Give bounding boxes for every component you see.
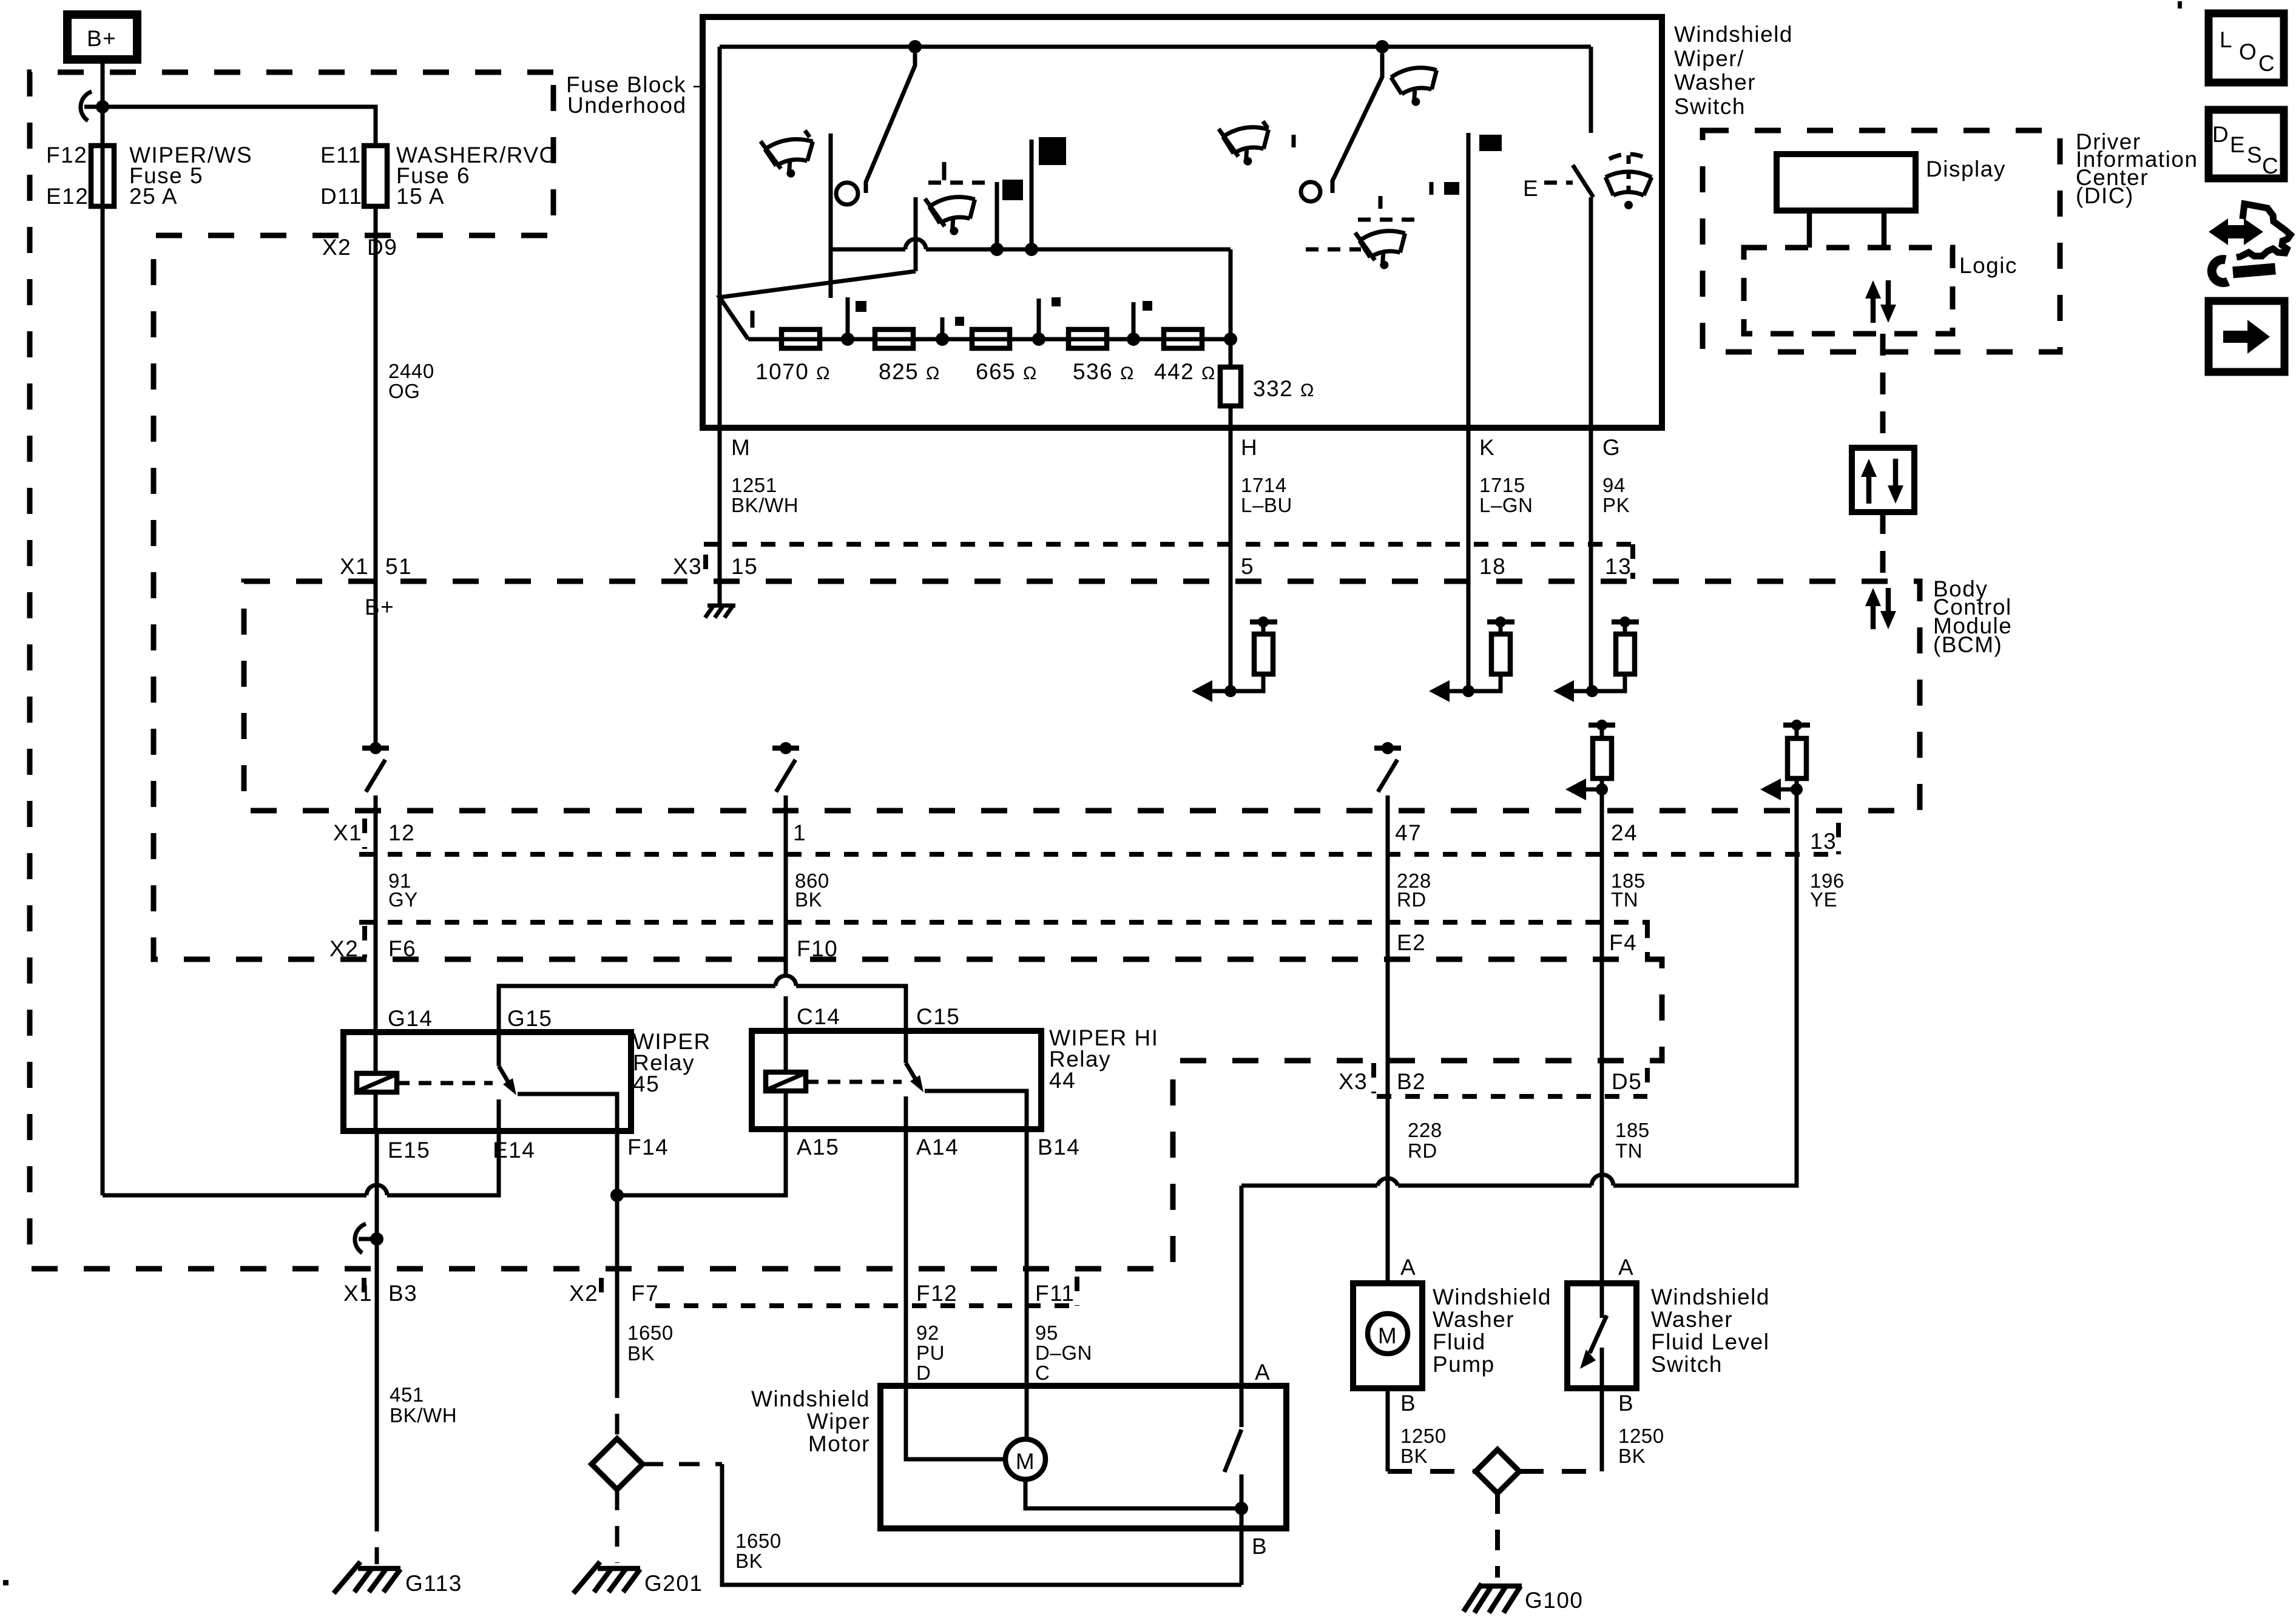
wire B down from motor (1240, 1508, 1244, 1585)
INT dashes lower (1306, 248, 1361, 252)
OFF contact vertical (829, 133, 833, 298)
svg-text:E12: E12 (46, 184, 89, 209)
svg-text:O: O (2239, 39, 2257, 64)
contact circle right selector (1301, 182, 1320, 201)
svg-text:A: A (1618, 1255, 1634, 1280)
display legs (1807, 211, 1812, 248)
svg-text:C: C (2258, 51, 2275, 76)
svg-text:X3: X3 (673, 554, 702, 579)
BCM input pull resistor H (1192, 616, 1277, 702)
svg-text:F7: F7 (631, 1281, 659, 1306)
left feed wire to E14 with hop over E15 (103, 1193, 366, 1198)
BCM pull-up 196 YE (1760, 720, 1810, 800)
svg-text:15 A: 15 A (396, 184, 445, 209)
Driver Information Center dashed box (1703, 130, 2060, 352)
svg-text:Windshield: Windshield (1674, 22, 1793, 47)
connector view icon: wrench (2233, 269, 2275, 272)
M column wire inside switch (718, 47, 722, 428)
connector view icon: component outline (2237, 204, 2291, 257)
svg-text:E: E (1523, 176, 1539, 201)
contact circle left selector (836, 183, 858, 204)
svg-text:665 Ω: 665 Ω (976, 359, 1038, 384)
wiper icon (low, slashed) (760, 130, 818, 181)
svg-text:A: A (1400, 1255, 1416, 1280)
svg-text:1715: 1715 (1479, 474, 1525, 496)
mist vertical link (914, 197, 918, 271)
mist tick (942, 162, 947, 180)
LOC icon box (2209, 13, 2284, 83)
ladder right node (1224, 333, 1237, 346)
ground G201 (573, 1562, 640, 1593)
wire 1650 BK from F7 (615, 1269, 620, 1377)
svg-text:C: C (1035, 1362, 1050, 1384)
relay45 coil (374, 959, 378, 1073)
svg-text:Logic: Logic (1959, 253, 2017, 278)
wire 196 YE down and across (1613, 789, 1797, 1186)
up/down arrows in Logic (1865, 280, 1896, 323)
connector view icon: double arrow (2209, 218, 2263, 245)
svg-text:18: 18 (1479, 554, 1506, 579)
BCM output driver switch (860 BK) (772, 746, 799, 751)
svg-text:H: H (1241, 435, 1258, 460)
ladder node 3 (1032, 333, 1045, 346)
svg-text:536 Ω: 536 Ω (1073, 359, 1135, 384)
svg-text:X2: X2 (322, 235, 351, 260)
svg-text:1250: 1250 (1618, 1425, 1664, 1447)
svg-text:K: K (1479, 435, 1495, 460)
svg-text:Pump: Pump (1433, 1352, 1495, 1377)
K detent square top (1479, 135, 1502, 151)
svg-text:1: 1 (793, 820, 806, 845)
svg-text:M: M (1378, 1323, 1397, 1348)
svg-text:Display: Display (1926, 157, 2006, 181)
connector dotted line row1 (359, 852, 1838, 857)
F14 wire down with junction to A15 (615, 1131, 620, 1377)
svg-text:825 Ω: 825 Ω (879, 359, 940, 384)
LO position stub (995, 182, 999, 249)
connector dotted line F12 F11 (655, 1303, 1077, 1308)
ground G100 (1464, 1584, 1522, 1613)
svg-text:X1: X1 (333, 820, 362, 845)
wire ladder to linkage (1229, 249, 1233, 339)
svg-text:F12: F12 (916, 1281, 957, 1306)
svg-text:X2: X2 (569, 1281, 598, 1306)
svg-text:OG: OG (388, 380, 420, 402)
selector lever 1 (866, 53, 915, 193)
LO detent square (1002, 180, 1023, 200)
svg-text:BK/WH: BK/WH (731, 494, 799, 516)
svg-text:F10: F10 (797, 936, 838, 961)
svg-text:Fluid Level: Fluid Level (1651, 1329, 1769, 1354)
X3 tick (703, 555, 708, 579)
svg-text:M: M (1016, 1449, 1035, 1474)
HI detent square (1039, 137, 1066, 165)
fuse WASHER/RVC Fuse 6 (364, 146, 387, 206)
splice diamond S (592, 1439, 643, 1490)
svg-text:E2: E2 (1397, 930, 1426, 955)
svg-text:PU: PU (916, 1342, 945, 1364)
svg-text:(BCM): (BCM) (1933, 632, 2002, 657)
svg-text:BK: BK (1618, 1445, 1646, 1467)
svg-text:E15: E15 (388, 1138, 430, 1163)
svg-text:A15: A15 (797, 1135, 839, 1160)
svg-text:B14: B14 (1038, 1135, 1080, 1160)
wire 451 BK/WH (375, 1269, 379, 1511)
svg-text:TN: TN (1611, 888, 1638, 911)
WIPER HI Relay 44 box (752, 1031, 1041, 1129)
level B wire (1600, 1388, 1604, 1471)
wire A14 92 PU (904, 1129, 908, 1386)
G wire lower (1589, 197, 1593, 428)
up/down arrows inside BCM (1865, 588, 1896, 629)
svg-text:B: B (1400, 1391, 1416, 1416)
X3 connector dotted line (704, 542, 1633, 547)
svg-text:M: M (731, 435, 751, 460)
svg-text:442 Ω: 442 Ω (1154, 359, 1216, 384)
resistor 332 ohm (1229, 339, 1233, 367)
forward arrow icon box (2209, 301, 2284, 372)
mist dashes (928, 181, 989, 185)
wire 185 TN down (1600, 789, 1604, 1283)
relay44 coil-switch dashed link (806, 1080, 902, 1084)
ladder node 2 (936, 333, 949, 346)
resistor 825 ohm (875, 329, 913, 348)
svg-text:G14: G14 (388, 1006, 433, 1031)
svg-text:1650: 1650 (627, 1322, 674, 1344)
hop arc over C14 wire (775, 976, 796, 986)
right selector lever (1332, 53, 1382, 193)
svg-text:1251: 1251 (731, 474, 777, 496)
svg-text:13: 13 (1605, 554, 1632, 579)
clip symbol on E15 wire (355, 1224, 366, 1253)
relay44 switch (906, 1063, 919, 1085)
svg-text:Windshield: Windshield (1651, 1284, 1770, 1309)
wire junction to washer fuse (103, 107, 376, 146)
svg-text:332 Ω: 332 Ω (1253, 376, 1315, 401)
svg-text:1250: 1250 (1400, 1425, 1447, 1447)
washer icon (dashed arc) (1606, 154, 1652, 209)
junction node linkage hi (1025, 243, 1038, 256)
svg-text:F12: F12 (46, 143, 87, 167)
svg-text:L–GN: L–GN (1479, 494, 1533, 516)
svg-text:PK: PK (1602, 494, 1630, 516)
svg-text:1650: 1650 (735, 1530, 782, 1552)
svg-text:25 A: 25 A (129, 184, 178, 209)
page corner dot bottom-left (3, 1580, 8, 1585)
svg-text:D9: D9 (367, 235, 397, 260)
resistor 665 ohm (972, 329, 1010, 348)
svg-text:D: D (2212, 122, 2229, 147)
svg-text:D: D (916, 1362, 931, 1384)
svg-text:B+: B+ (87, 26, 116, 51)
svg-text:TN: TN (1615, 1139, 1643, 1162)
svg-text:451: 451 (390, 1383, 424, 1406)
svg-text:228: 228 (1408, 1119, 1442, 1141)
svg-text:B3: B3 (388, 1281, 417, 1306)
wire B14 95 D-GN (1025, 1129, 1029, 1386)
park switch lever (1224, 1430, 1241, 1472)
svg-text:X2: X2 (329, 936, 359, 961)
HI position stub (1030, 140, 1034, 249)
wire A from BCM line down into motor (1240, 1186, 1244, 1427)
fuse WIPER/WS Fuse 5 (91, 146, 114, 206)
svg-text:BK: BK (735, 1550, 763, 1572)
svg-text:94: 94 (1602, 474, 1626, 496)
level switch internals (1600, 1283, 1604, 1318)
tick near icon (1292, 135, 1296, 147)
B+ power symbol box (67, 15, 137, 59)
wire fuse6 output down (374, 206, 378, 581)
svg-text:Underhood: Underhood (567, 93, 687, 118)
DESC icon box (2209, 110, 2284, 178)
svg-text:X3: X3 (1339, 1069, 1368, 1094)
svg-text:Wiper/: Wiper/ (1674, 46, 1744, 71)
svg-text:B: B (1252, 1534, 1268, 1559)
motor M circle (1005, 1439, 1045, 1479)
K contact vertical (1467, 133, 1471, 428)
svg-text:BK: BK (627, 1342, 655, 1365)
svg-text:C15: C15 (916, 1004, 960, 1029)
BCM output driver switch (228 RD) (1374, 746, 1401, 751)
relay44 coil (766, 1072, 806, 1091)
svg-text:1714: 1714 (1241, 474, 1287, 496)
Display box (1777, 154, 1916, 211)
Windshield Wiper/Washer Switch box (703, 17, 1662, 428)
svg-text:B+: B+ (365, 595, 394, 619)
svg-text:2440: 2440 (388, 360, 434, 382)
wiper icon mist (slashed) (925, 191, 979, 239)
svg-text:Windshield: Windshield (751, 1386, 870, 1411)
svg-text:RD: RD (1408, 1139, 1437, 1162)
washer switch lever (1573, 165, 1593, 197)
svg-text:F6: F6 (388, 936, 416, 961)
wiper icon INT (slashed) (1355, 225, 1410, 273)
relay45 switch (497, 1032, 501, 1066)
svg-text:G100: G100 (1525, 1588, 1584, 1613)
E15 wire down (375, 1131, 379, 1269)
svg-text:Switch: Switch (1651, 1352, 1723, 1377)
resistor 442 ohm (1164, 329, 1202, 348)
Windshield Wiper Motor box (880, 1386, 1286, 1528)
connector dotted line B2 D5 (1377, 1094, 1647, 1099)
svg-text:G201: G201 (644, 1571, 703, 1596)
svg-text:Washer: Washer (1433, 1307, 1514, 1332)
BCM pull-up 185 TN (1565, 720, 1615, 800)
svg-text:C14: C14 (797, 1004, 840, 1029)
svg-text:B: B (1618, 1391, 1634, 1416)
dashed links to splice diamond (1388, 1469, 1476, 1474)
svg-text:Fluid: Fluid (1433, 1329, 1486, 1354)
wire from B+ down left column (101, 59, 105, 1195)
svg-text:13: 13 (1810, 829, 1837, 854)
svg-text:D5: D5 (1612, 1069, 1642, 1094)
junction node B+ feed (96, 100, 109, 113)
corner tick at G pin 13 (1630, 544, 1635, 579)
hop arc over 228 wire (1377, 1178, 1398, 1186)
svg-text:S: S (2247, 143, 2263, 167)
BCM output driver switch (B+ to 91 GY) (374, 581, 378, 748)
dashed to G100 (1495, 1493, 1500, 1578)
dashed link splice to motor ground wire (643, 1462, 722, 1467)
svg-text:(DIC): (DIC) (2076, 183, 2134, 208)
Windshield Washer Fluid Level Switch box (1567, 1283, 1636, 1388)
svg-text:X1: X1 (343, 1281, 373, 1306)
svg-text:A: A (1255, 1360, 1271, 1385)
resistor 536 ohm (1069, 329, 1107, 348)
svg-text:GY: GY (388, 888, 418, 911)
motor internal wires (906, 1386, 1005, 1459)
G contact upper (1589, 47, 1593, 133)
BCM dashed box (244, 581, 1920, 811)
Logic dashed box (1744, 248, 1953, 334)
pump B wire (1386, 1388, 1390, 1471)
svg-text:12: 12 (388, 820, 415, 845)
svg-text:D–GN: D–GN (1035, 1342, 1092, 1364)
svg-text:Switch: Switch (1674, 94, 1746, 119)
INT icon tick (1379, 196, 1383, 209)
hop arc over 185 wire (1592, 1175, 1613, 1186)
dashed splice to G201 (615, 1490, 620, 1563)
svg-text:Windshield: Windshield (1433, 1284, 1551, 1309)
Windshield Washer Fluid Pump box (1353, 1283, 1422, 1388)
svg-text:RD: RD (1397, 888, 1427, 911)
BCM input pull resistor K (1429, 616, 1514, 702)
svg-text:1070 Ω: 1070 Ω (755, 359, 831, 384)
connector dotted line row2 (359, 920, 1650, 925)
svg-text:51: 51 (385, 554, 412, 579)
clip symbol at B+ junction (81, 92, 92, 121)
junction node bus-right lever (1376, 40, 1389, 53)
svg-text:G15: G15 (507, 1006, 552, 1031)
G15 loop wire to C15 (499, 986, 775, 1032)
svg-text:F11: F11 (1035, 1281, 1075, 1306)
svg-text:45: 45 (633, 1072, 660, 1096)
K detent tick+square (1430, 182, 1434, 195)
svg-text:E: E (2230, 132, 2246, 157)
relay45 coil-switch dashed link (397, 1081, 493, 1085)
ladder tick left (751, 311, 755, 328)
svg-text:C: C (2262, 154, 2279, 178)
svg-text:Washer: Washer (1674, 70, 1756, 95)
svg-text:BK: BK (1400, 1445, 1428, 1467)
resistor ladder wire (748, 337, 1231, 342)
svg-text:X1: X1 (340, 554, 369, 579)
svg-text:L: L (2220, 27, 2233, 52)
svg-text:BK/WH: BK/WH (390, 1404, 457, 1426)
svg-text:Washer: Washer (1651, 1307, 1733, 1332)
svg-text:92: 92 (916, 1322, 939, 1344)
inner bus wire (720, 45, 1591, 49)
ground inside BCM for M wire (705, 606, 735, 618)
wire 1650 BK lower loop (722, 1464, 1241, 1585)
linkage horizontal line (831, 248, 905, 252)
selector arm diagonal (720, 271, 916, 339)
dashed serial link shuttle to BCM (1880, 512, 1886, 580)
svg-text:F14: F14 (627, 1135, 669, 1160)
BCM input pull resistor G (1553, 616, 1639, 702)
wiper icon top right (plain) (1390, 65, 1442, 109)
svg-text:G113: G113 (405, 1571, 462, 1596)
svg-text:G: G (1602, 435, 1621, 460)
svg-text:15: 15 (731, 554, 758, 579)
ladder node 1 (841, 333, 854, 346)
junction node bus-left lever (908, 40, 922, 53)
svg-text:F4: F4 (1609, 930, 1637, 955)
resistor 1070 ohm (782, 329, 820, 348)
Fuse Block Underhood dashed boundary polygon (30, 72, 1662, 1269)
svg-text:44: 44 (1049, 1068, 1076, 1093)
svg-text:E11: E11 (320, 143, 362, 167)
page tick top-right (2178, 1, 2182, 8)
dashed serial link DIC to shuttle (1880, 334, 1886, 448)
shuttle box with arrows (1852, 448, 1914, 512)
switch pin wires M H K G below box (718, 428, 722, 604)
svg-text:B2: B2 (1397, 1069, 1426, 1094)
hop arc on linkage over mist vertical (905, 239, 926, 249)
svg-text:L–BU: L–BU (1241, 494, 1292, 516)
ladder node 4 (1127, 333, 1140, 346)
washer linkage dashes (1544, 181, 1573, 185)
svg-text:5: 5 (1241, 554, 1254, 579)
svg-text:47: 47 (1395, 820, 1422, 845)
svg-text:24: 24 (1611, 820, 1638, 845)
svg-text:A14: A14 (916, 1135, 959, 1160)
WIPER Relay 45 box (343, 1032, 631, 1131)
svg-text:Wiper: Wiper (807, 1409, 870, 1434)
wiper icon left of lever (slashed) (1218, 121, 1274, 169)
svg-text:Motor: Motor (808, 1431, 870, 1456)
ground G113 (334, 1562, 400, 1593)
svg-text:95: 95 (1035, 1322, 1058, 1344)
svg-text:BK: BK (795, 888, 822, 911)
svg-text:185: 185 (1615, 1119, 1650, 1141)
splice diamond ground (1476, 1450, 1519, 1493)
INT dashes upper (1358, 218, 1417, 222)
svg-text:YE: YE (1810, 888, 1837, 911)
junction node linkage lo (990, 243, 1004, 256)
svg-text:D11: D11 (320, 184, 363, 209)
